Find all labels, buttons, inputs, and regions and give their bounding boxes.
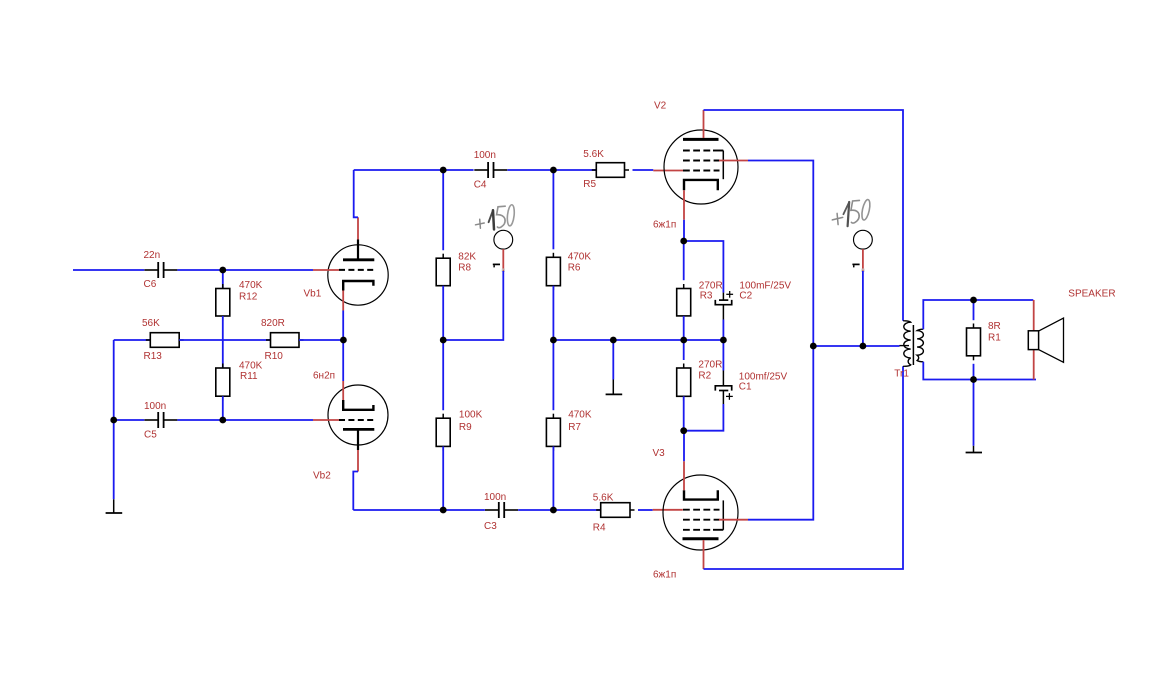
wire R1 to bottom rail bbox=[973, 364, 975, 380]
svg-text:270R: 270R bbox=[698, 360, 722, 371]
svg-text:R1: R1 bbox=[988, 333, 1001, 344]
resistor R3 bbox=[677, 241, 723, 320]
node rail A R8 bbox=[440, 337, 447, 344]
svg-text:C5: C5 bbox=[144, 430, 157, 441]
svg-text:5.6K: 5.6K bbox=[583, 149, 604, 160]
svg-text:R10: R10 bbox=[265, 351, 284, 362]
resistor R4 bbox=[593, 492, 635, 533]
wire C5 left segment bbox=[114, 419, 145, 421]
svg-text:R13: R13 bbox=[144, 351, 163, 362]
capacitor C2 bbox=[715, 280, 791, 319]
wire R13 to R10 bbox=[179, 339, 270, 341]
net label 1 right bbox=[852, 264, 859, 267]
svg-text:C6: C6 bbox=[144, 279, 157, 290]
wire secondary top to speaker bbox=[923, 300, 1033, 329]
wire R6 to rail bbox=[552, 286, 554, 340]
wire left column down bbox=[113, 340, 115, 420]
svg-text:C3: C3 bbox=[484, 521, 497, 532]
node rail ground tap bbox=[610, 337, 617, 344]
svg-text:R12: R12 bbox=[239, 291, 258, 302]
wire R12 to lower node bbox=[222, 316, 224, 340]
wire R9 to bottom row bbox=[442, 446, 444, 510]
power +150 right handwritten bbox=[832, 199, 871, 226]
wire cathode node to C2 bbox=[684, 241, 724, 293]
svg-text:22n: 22n bbox=[144, 250, 161, 261]
wire R11 to C5 row bbox=[222, 396, 224, 420]
wire +150 left to rail bbox=[443, 271, 503, 340]
supply circle +150 right bbox=[854, 230, 873, 272]
node rail C2 bbox=[720, 337, 727, 344]
wire V2 cathode to node bbox=[683, 220, 685, 241]
resistor R7 bbox=[546, 340, 591, 451]
wire C1 to lower node bbox=[684, 404, 724, 431]
ground left bbox=[106, 499, 123, 513]
svg-text:C2: C2 bbox=[739, 291, 752, 302]
svg-text:470K: 470K bbox=[239, 360, 263, 371]
svg-text:R2: R2 bbox=[698, 371, 711, 382]
node input junction bbox=[219, 267, 226, 274]
svg-text:8R: 8R bbox=[988, 321, 1001, 332]
svg-text:Vb1: Vb1 bbox=[304, 289, 322, 300]
node Vb1 cathode junction bbox=[340, 337, 347, 344]
svg-text:R9: R9 bbox=[459, 422, 472, 433]
svg-text:100n: 100n bbox=[474, 150, 496, 161]
wire ground rail bbox=[553, 339, 723, 341]
wire Vb2 anode jog to bottom row bbox=[353, 472, 358, 511]
svg-text:R5: R5 bbox=[583, 179, 596, 190]
capacitor C5 bbox=[144, 401, 177, 441]
svg-text:C4: C4 bbox=[474, 180, 487, 191]
svg-text:Tr1: Tr1 bbox=[894, 369, 909, 380]
node R5 left bbox=[550, 167, 557, 174]
wire C2 to rail bbox=[722, 320, 724, 341]
power +150 left handwritten bbox=[476, 204, 516, 229]
wire V2 anode top row bbox=[704, 110, 904, 321]
svg-text:R6: R6 bbox=[568, 262, 581, 273]
svg-text:R4: R4 bbox=[593, 523, 606, 534]
svg-text:Vb2: Vb2 bbox=[313, 471, 331, 482]
resistor R5 bbox=[583, 149, 629, 190]
svg-text:R3: R3 bbox=[700, 291, 713, 302]
resistor R12 bbox=[216, 280, 263, 320]
node C5 row junction bbox=[219, 417, 226, 424]
wire R5 to V2 grid bbox=[633, 169, 684, 172]
wire V3 anode row bbox=[704, 366, 904, 569]
capacitor C6 bbox=[144, 250, 178, 290]
wire Vb1 cathode to node bbox=[342, 311, 344, 341]
svg-text:V3: V3 bbox=[653, 448, 666, 459]
speaker feed top red bbox=[1033, 300, 1035, 331]
ground right bbox=[966, 446, 982, 453]
svg-text:100n: 100n bbox=[144, 401, 166, 412]
svg-text:5.6K: 5.6K bbox=[593, 492, 614, 503]
svg-text:6ж1п: 6ж1п bbox=[653, 569, 676, 580]
node speaker top R1 bbox=[970, 297, 977, 304]
svg-text:470K: 470K bbox=[568, 410, 592, 421]
svg-text:V2: V2 bbox=[654, 100, 667, 111]
node rail supply bbox=[860, 343, 867, 350]
wire node to R12 bbox=[222, 270, 224, 289]
pentode V2 bbox=[654, 100, 748, 219]
wire secondary bottom to speaker bbox=[923, 362, 1036, 380]
wire R1 to ground bbox=[973, 380, 975, 446]
node C4 left bbox=[440, 167, 447, 174]
resistor R2 bbox=[677, 340, 723, 401]
label Tr1 bbox=[894, 369, 909, 380]
wire Vb2 cathode to node bbox=[342, 340, 344, 381]
node rail R6/R7 bbox=[550, 337, 557, 344]
wire R7 to bottom row bbox=[552, 446, 554, 510]
wire left column horizontal bbox=[114, 339, 151, 341]
speaker SPEAKER bbox=[1028, 288, 1115, 362]
svg-text:470K: 470K bbox=[239, 280, 263, 291]
triode Vb2 bbox=[313, 381, 388, 482]
wire input left bbox=[73, 269, 144, 271]
capacitor C3 bbox=[484, 492, 518, 532]
label 6zh1p V3 bbox=[653, 569, 676, 580]
pentode V3 bbox=[653, 448, 749, 569]
node V2 cathode bbox=[680, 238, 687, 245]
svg-text:82K: 82K bbox=[458, 251, 476, 262]
wire R4 to V3 grid bbox=[638, 509, 683, 511]
wire C6 to Vb1 grid bbox=[177, 269, 313, 271]
svg-text:C1: C1 bbox=[739, 382, 752, 393]
wire B+ rail to transformer bbox=[813, 345, 909, 347]
svg-text:6н2п: 6н2п bbox=[313, 370, 335, 381]
node C3 left bbox=[440, 507, 447, 514]
wire R3 to rail bbox=[683, 316, 685, 340]
wire top row left bbox=[354, 169, 474, 171]
svg-text:SPEAKER: SPEAKER bbox=[1068, 288, 1115, 299]
triode Vb1 bbox=[304, 217, 389, 310]
svg-text:100mF/25V: 100mF/25V bbox=[739, 280, 791, 291]
node C5 left bbox=[110, 417, 117, 424]
transformer Tr1 core bbox=[912, 325, 914, 365]
capacitor C4 bbox=[474, 150, 508, 191]
svg-text:R8: R8 bbox=[458, 262, 471, 273]
capacitor C1 bbox=[715, 340, 787, 404]
wire to ground left bbox=[113, 420, 115, 499]
svg-text:R7: R7 bbox=[568, 422, 581, 433]
svg-text:56K: 56K bbox=[142, 318, 160, 329]
svg-text:R11: R11 bbox=[240, 371, 258, 382]
net label 1 left bbox=[493, 264, 500, 267]
resistor R10 bbox=[261, 318, 304, 362]
wire R10 to cathode node bbox=[299, 339, 343, 341]
svg-text:270R: 270R bbox=[699, 280, 723, 291]
label 6n2p bbox=[313, 370, 335, 381]
wire bottom row left bbox=[353, 509, 485, 511]
resistor R6 bbox=[546, 170, 591, 290]
supply circle +150 left bbox=[494, 230, 513, 272]
resistor R1 bbox=[967, 300, 1002, 360]
node R4 left bbox=[550, 507, 557, 514]
wire R8 to rail bbox=[442, 286, 444, 340]
resistor R13 bbox=[142, 318, 184, 362]
node rail R3 bbox=[680, 337, 687, 344]
wire primary bottom riser bbox=[903, 365, 904, 367]
node speaker bottom R1 bbox=[970, 376, 977, 383]
wire C3 to R4 bbox=[518, 509, 601, 511]
node rail screen bbox=[810, 343, 817, 350]
transformer Tr1 primary bbox=[904, 321, 911, 367]
svg-text:100K: 100K bbox=[459, 410, 483, 421]
wire +150 right to rail bbox=[862, 271, 864, 346]
wire V3 screen to rail bbox=[748, 346, 813, 520]
node V3 cathode bbox=[680, 427, 687, 434]
label 6zh1p V2 bbox=[653, 219, 676, 230]
resistor R9 bbox=[436, 340, 482, 451]
speaker feed bottom red bbox=[1033, 350, 1035, 380]
wire C5 to Vb2 grid bbox=[177, 419, 313, 421]
wire C4 to R5 bbox=[507, 169, 596, 171]
svg-text:470K: 470K bbox=[568, 251, 592, 262]
svg-text:6ж1п: 6ж1п bbox=[653, 219, 676, 230]
wire Vb1 anode jog to top row bbox=[354, 170, 358, 217]
svg-text:100n: 100n bbox=[484, 492, 506, 503]
svg-text:820R: 820R bbox=[261, 318, 285, 329]
resistor R11 bbox=[216, 340, 263, 401]
wire R2 to lower node bbox=[683, 396, 685, 430]
wire V2 screen to rail bbox=[748, 161, 813, 347]
wire primary top riser bbox=[903, 320, 904, 322]
resistor R8 bbox=[436, 170, 476, 290]
wire node to V3 cathode bbox=[683, 431, 685, 462]
ground middle bbox=[606, 340, 623, 394]
transformer Tr1 secondary bbox=[917, 329, 923, 362]
